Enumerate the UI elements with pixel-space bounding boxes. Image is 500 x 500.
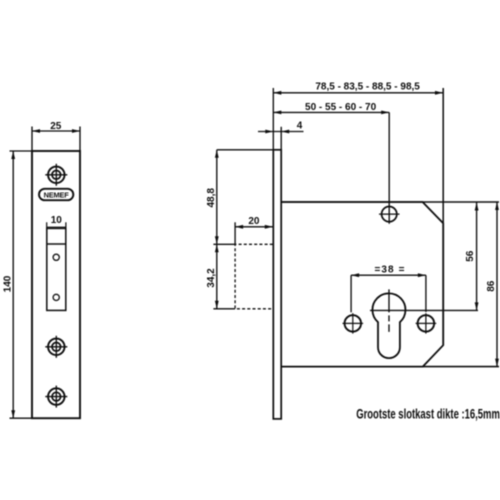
- svg-text:4: 4: [297, 120, 303, 131]
- svg-text:25: 25: [50, 121, 62, 132]
- svg-text:56: 56: [465, 250, 476, 262]
- svg-text:Grootste slotkast dikte :16,5m: Grootste slotkast dikte :16,5mm.: [356, 406, 500, 422]
- svg-text:50 - 55 - 60 - 70: 50 - 55 - 60 - 70: [305, 102, 377, 113]
- svg-text:48,8: 48,8: [206, 188, 217, 208]
- svg-text:140: 140: [3, 275, 14, 292]
- svg-text:10: 10: [51, 215, 63, 226]
- svg-text:34,2: 34,2: [206, 268, 217, 288]
- svg-text:86: 86: [486, 280, 497, 292]
- svg-text:78,5 - 83,5 - 88,5 - 98,5: 78,5 - 83,5 - 88,5 - 98,5: [315, 81, 420, 92]
- svg-text:20: 20: [248, 216, 260, 227]
- svg-text:=38 =: =38 =: [374, 265, 405, 276]
- svg-text:NEMEF: NEMEF: [44, 190, 70, 199]
